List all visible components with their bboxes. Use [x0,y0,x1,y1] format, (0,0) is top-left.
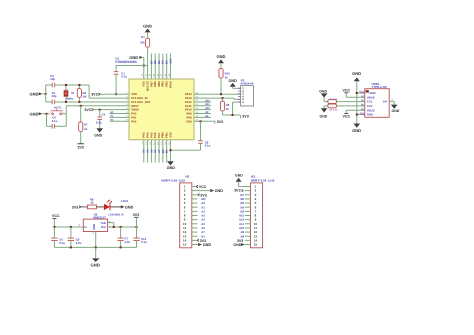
capacitor C4 0.1u [96,110,106,129]
svg-text:B4: B4 [162,60,165,64]
U1 pin numbers right 24-17 [196,92,199,122]
svg-text:STM32F030K6: STM32F030K6 [115,60,137,64]
svg-text:A6: A6 [154,149,157,153]
svg-text:0.1u: 0.1u [52,119,58,123]
svg-text:KH254-6P: KH254-6P [241,82,254,86]
capacitor C6 0.1u [51,227,65,247]
svg-text:PB1: PB1 [166,132,169,138]
node junction VDD/C8 [200,120,202,122]
ground GND above H3 pin1 [235,173,243,186]
LED LED1 red [104,199,129,216]
svg-text:GND: GND [228,79,237,83]
U1 right pin names [185,93,192,123]
svg-text:R1: R1 [141,35,145,39]
connector USB1 TYPE-C-6P [365,82,389,117]
svg-text:GND: GND [235,173,243,177]
wire key to NRST pin [66,106,129,114]
svg-text:B1: B1 [201,234,205,238]
wire crystal top rail to PF0 [89,85,129,98]
node junction VSS/C8 return [169,149,171,151]
svg-text:PA10: PA10 [185,109,192,112]
svg-text:HDR-F-2.54_1x15: HDR-F-2.54_1x15 [251,178,275,182]
capacitor C9 2.2u [68,227,82,247]
USB1 shield pin EH to GND [383,98,400,113]
svg-text:3V3: 3V3 [84,108,90,112]
svg-text:PB6: PB6 [154,81,157,87]
power flag 3V3 right of R9 [240,114,249,118]
node junctions crystal rails [65,84,80,103]
H2 pin numbers 1-15 [183,185,187,247]
power flag 3V3 H2 pin3 [198,193,207,197]
svg-text:VSS: VSS [143,81,146,87]
svg-text:8MHz: 8MHz [67,98,74,101]
wire USB ground rail [357,81,365,123]
svg-text:PA15: PA15 [169,81,172,88]
svg-text:A4: A4 [147,149,150,153]
svg-text:A5: A5 [150,149,153,153]
svg-text:GND: GND [215,189,224,193]
wire bottom pin stubs PA3-PB1 with net labels [143,140,169,163]
wire VSS vertical [143,57,145,79]
capacitor C3 20p [46,91,129,104]
ground GND above R10 [217,54,226,68]
H3 pin wires [239,187,251,245]
wire crystal left vertical [45,85,47,102]
svg-text:B7: B7 [150,60,153,64]
resistor R8 1k [88,197,97,208]
svg-text:VSS: VSS [169,132,172,138]
svg-text:GND: GND [125,206,134,210]
node junction R9/PA13 [222,97,224,99]
svg-text:HDR-F-2.54_1x15: HDR-F-2.54_1x15 [161,178,185,182]
svg-text:3V3: 3V3 [91,93,97,97]
svg-text:A12: A12 [205,99,210,102]
svg-text:LED1: LED1 [121,199,129,203]
node junctions top bus left [53,226,72,228]
wire VCC to VBUS pin2 [346,96,365,98]
power flag 3V3 (LED row) [72,205,88,209]
svg-text:GND: GND [319,89,327,93]
P3 pin numbers 1-6 [242,87,244,104]
power flag VCC bottom (VBUS) [343,110,365,119]
power flag VCC top (VBUS) [343,89,351,98]
power flag VCC regulator input [52,214,60,227]
U1 pin numbers top 32-25 [141,73,171,76]
svg-text:PB4: PB4 [162,81,165,87]
svg-text:BOOT0: BOOT0 [147,81,150,91]
U1 left pin names [131,93,151,123]
svg-text:A3: A3 [143,149,146,153]
svg-text:3V3: 3V3 [77,145,83,149]
svg-text:1k: 1k [226,107,230,111]
svg-text:VDD: VDD [131,93,137,96]
svg-text:GND: GND [129,55,138,60]
svg-text:0.1u: 0.1u [205,144,211,148]
svg-text:PA13: PA13 [185,97,192,100]
node junction VDDA/C4 [99,109,101,111]
svg-text:3V3: 3V3 [217,120,223,124]
wire VSS bottom to GND [169,140,171,161]
power flag 3V3 (VDD right) [214,120,223,124]
svg-text:20p: 20p [50,77,55,81]
capacitor C5 0.1u debounce branch [47,114,67,129]
U1 top pin names [143,81,173,91]
svg-text:PA12: PA12 [185,101,192,104]
node junctions bottom bus [70,246,122,248]
svg-text:2.2u: 2.2u [125,240,131,244]
wire PA0 PA1 PA2 stubs with net labels A0 A1 A2 [110,111,130,122]
svg-text:VCC: VCC [343,115,351,119]
resistor R4 5.1k (CC1) [324,98,365,104]
svg-text:VDDA: VDDA [131,109,139,112]
capacitor C10 0.1u [133,227,147,247]
node junction NRST/R7 [80,105,82,107]
ground flag GND (KEY1) [30,111,50,116]
node junction crystal gnd [45,93,47,95]
capacitor C7 2.2u [117,227,130,247]
svg-text:NRST: NRST [131,105,139,108]
resistor R6 1M [77,85,87,102]
svg-text:GND: GND [30,111,39,116]
wire TAB loop to Out [108,223,137,227]
svg-text:VCC: VCC [343,89,351,93]
svg-text:Out: Out [101,225,106,229]
op-amp U1 body (MCU STM32F030K6 yellow box) [129,79,194,140]
power flag 3V3 H3 pin14 [237,239,243,243]
ground flag GND H2 pin2 [210,189,223,193]
ground flag GND right of LED1 [121,205,134,209]
svg-text:A11: A11 [205,103,210,106]
svg-text:GND: GND [92,224,96,230]
svg-text:GND: GND [203,243,212,247]
H2 pin net labels 4-13 [201,197,205,238]
push button KEY1 [50,106,66,115]
svg-text:C4: C4 [102,112,106,116]
node junction R10/PA14 [220,93,222,95]
svg-text:GND: GND [217,54,226,59]
wire PA12-PA8 stubs with net labels [194,99,211,117]
ground flag GND H3 pin15 [233,243,244,247]
svg-text:EH: EH [383,100,387,104]
crystal X1 8MHz [64,85,75,102]
ground GND below USB rail [352,124,361,133]
svg-text:PA9: PA9 [187,113,193,116]
node junction TAB/Out [113,226,115,228]
svg-text:PA11: PA11 [185,105,192,108]
ground flag GND (VSS top pin) [129,55,143,60]
svg-text:0.1u: 0.1u [121,75,127,79]
svg-text:PB5: PB5 [158,81,161,87]
net labels B7 B6 B5 B4 B3 A15 above MCU [150,58,172,63]
power flag 3V3 (VDDA) [84,108,93,112]
power flag 3V3 regulator output [133,213,139,227]
svg-text:R5 5.1k: R5 5.1k [329,109,338,112]
svg-text:1k: 1k [84,127,88,131]
U1 bottom pin names [143,132,173,138]
svg-text:H2: H2 [185,175,189,179]
power flag 3V3 H2 pin14 [197,239,206,243]
svg-text:PB7: PB7 [150,81,153,87]
power flag 3V3 below R7 [77,144,83,150]
svg-text:GND: GND [233,243,241,247]
node junction key left [46,113,48,115]
H3 pin net labels 3-13 [239,193,245,238]
ground GND below C4 [94,128,103,137]
capacitor C8 0.1u [170,121,210,150]
svg-text:A8: A8 [241,234,245,238]
svg-text:PA2: PA2 [131,120,137,123]
svg-text:3V3: 3V3 [242,114,248,118]
regulator U2 AMS1117 [78,212,110,235]
svg-text:PB0: PB0 [162,132,165,138]
svg-text:15: 15 [183,243,187,247]
svg-text:1: 1 [93,232,95,235]
svg-text:PF1-OSC_OUT: PF1-OSC_OUT [131,101,151,104]
wire P3 pin6 to 3V3 net [233,102,241,115]
svg-text:PA0: PA0 [131,113,137,116]
svg-text:KEY1: KEY1 [54,106,62,110]
wire PA13 to P3 pin5 [194,98,241,99]
svg-text:X1: X1 [71,91,75,95]
USB1 pin stubs [362,93,365,115]
svg-text:1k: 1k [90,200,94,204]
svg-text:B1: B1 [166,149,169,153]
capacitor C1 0.1u [114,66,127,95]
svg-text:GND: GND [143,23,152,28]
svg-text:PA6: PA6 [154,132,157,138]
wire U2 GND pin down [95,232,97,248]
power flag 3V3 H3 pin2 [234,189,243,193]
svg-text:0.1u: 0.1u [141,240,147,244]
node junctions USB gnd rail [356,92,358,116]
svg-text:PF0-OSC_IN: PF0-OSC_IN [131,97,147,100]
node junction C1/VDD wire [115,93,117,95]
svg-text:TAB: TAB [100,221,106,225]
capacitor C2 20p [46,74,89,88]
power flag VCC H2 pin1 [196,185,206,189]
wire LED to GND flag [110,206,121,208]
svg-text:GND: GND [320,114,328,118]
H2 pin wires [192,187,211,245]
USB1 pin numbers [360,91,365,116]
H3 pin numbers 1-15 [254,185,258,247]
wire 3V3 to VDDA pin [94,109,130,111]
svg-text:0.1u: 0.1u [59,241,65,245]
connector P3 KH254-6P [241,79,254,106]
svg-text:PA3: PA3 [143,132,146,138]
svg-text:3V3: 3V3 [72,205,78,209]
svg-text:PA14: PA14 [185,93,192,96]
svg-text:In: In [84,225,87,229]
svg-text:B5: B5 [158,60,161,64]
svg-text:PA4: PA4 [147,132,150,138]
svg-text:GND: GND [392,109,400,113]
U1 reference label [115,57,137,64]
svg-text:GND: GND [91,263,100,268]
svg-text:GND: GND [352,128,361,133]
svg-text:VCC: VCC [52,214,60,218]
USB1 pin names [367,91,376,117]
U1 pin numbers bottom 9-16 [141,142,171,145]
power flag 3V3 (VDD left) [91,93,100,97]
svg-text:GND: GND [167,166,176,170]
resistor R10 1k [219,68,230,94]
ground GND below MCU [167,161,176,170]
ground flag GND H2 pin15 [198,243,211,247]
svg-text:R4 5.1k: R4 5.1k [329,98,338,101]
svg-text:PB3: PB3 [166,81,169,87]
ground GND above USB [352,71,361,81]
wire PA14 to P3 pin3 [194,93,241,95]
resistor R1 10k [140,35,150,79]
svg-text:B6: B6 [154,60,157,64]
ground GND above R1 [143,23,152,38]
ground GND above R4 [319,89,327,101]
svg-text:10k: 10k [140,41,145,45]
svg-text:PA5: PA5 [150,132,153,138]
svg-text:PA7: PA7 [158,132,161,138]
svg-text:B3: B3 [166,60,169,64]
ground flag GND (crystal) [30,91,46,96]
svg-text:GND: GND [367,113,373,117]
svg-text:GND: GND [352,71,361,76]
svg-text:A15: A15 [169,58,172,63]
U1 pin numbers left 1-8 [126,92,128,122]
resistor R5 5.1k (CC2) [324,104,365,112]
wire top pin stubs PB7-PA15 [151,54,170,80]
svg-text:15: 15 [254,243,258,247]
svg-text:A10: A10 [205,107,210,110]
svg-text:5: 5 [392,98,394,101]
svg-text:PA8: PA8 [187,116,193,119]
wire R8 to LED [97,206,104,208]
ground GND above P3 pin1 [228,79,240,89]
node junction VSS/C1 [143,65,145,67]
wire VDD right to 3V3 flag [194,120,214,122]
resistor R7 1k pull to 3V3 [79,106,89,144]
svg-text:3V3: 3V3 [133,213,139,217]
svg-text:2.2u: 2.2u [76,241,82,245]
svg-text:B0: B0 [162,149,165,153]
wire 3V3 to VDD pin [100,93,129,95]
ground GND regulator [91,247,100,267]
svg-text:20p: 20p [52,94,57,98]
svg-text:VDD: VDD [186,120,192,123]
node junction 3V3 net [232,114,234,116]
connector H2 HDR-F-2.54_1x15 [161,175,191,248]
wire C1 to VSS horizontal [116,65,148,67]
ground GND below R5 [320,106,328,119]
wire regulator top bus left [54,226,83,228]
resistor R9 1k [220,98,240,115]
svg-text:PA1: PA1 [131,116,137,119]
svg-text:GND: GND [94,134,102,138]
svg-text:0.1u: 0.1u [96,121,102,125]
svg-text:1M: 1M [83,94,88,98]
svg-text:VCC: VCC [199,185,207,189]
P3 pin stubs [238,88,240,102]
svg-text:A7: A7 [158,149,161,153]
svg-text:LED-0805_R: LED-0805_R [108,214,123,217]
node junctions top bus right [120,226,138,228]
wire regulator bottom bus [54,246,136,248]
svg-text:GND: GND [30,91,39,96]
connector H3 HDR-F-2.54_1x15 [251,175,275,248]
